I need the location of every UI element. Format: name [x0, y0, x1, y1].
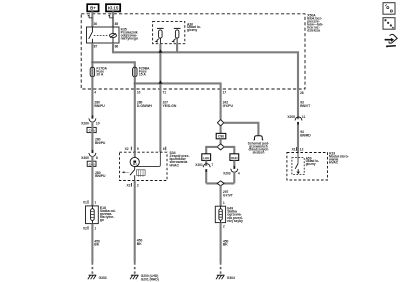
svg-text:30: 30 — [94, 22, 98, 26]
K33 label — [328, 152, 349, 165]
svg-text:11: 11 — [302, 115, 306, 119]
svg-text:15 A: 15 A — [139, 73, 146, 77]
S34 defogger icon — [137, 170, 146, 177]
svg-text:BN/PU: BN/PU — [94, 104, 105, 108]
svg-text:X2: X2 — [83, 226, 87, 230]
svg-text:Kl.15: Kl.15 — [108, 6, 119, 11]
wire X203 to rejoin — [233, 172, 235, 184]
icon arrow (pointer) — [385, 34, 398, 47]
wire branch to pin 17 — [135, 83, 221, 119]
svg-text:71: 71 — [163, 91, 167, 95]
svg-text:X2: X2 — [125, 147, 129, 151]
wire RHD to connector X203 — [233, 160, 235, 165]
HVAC control module K33 dashed box — [287, 153, 328, 181]
fuse F20BA — [133, 66, 150, 76]
LHD box — [202, 154, 211, 161]
wire S34 to ground — [134, 181, 136, 263]
inline harness box C4B — [87, 127, 96, 132]
svg-text:BK: BK — [223, 243, 228, 247]
wire X200 to X300 — [91, 122, 93, 150]
junction arrow at bus — [158, 49, 162, 52]
connector X200 pin 10 — [81, 115, 100, 125]
wire label 280 D-GN/WH — [137, 101, 153, 108]
heater grid E49 — [215, 206, 243, 228]
wire LHD to connector X201 — [205, 160, 207, 166]
svg-text:BK: BK — [137, 242, 142, 246]
ground G200/G201 — [130, 274, 159, 281]
svg-text:GY/PU: GY/PU — [223, 104, 234, 108]
svg-text:giczny: giczny — [306, 162, 316, 166]
A30 label — [187, 22, 201, 32]
svg-text:D-GN/WH: D-GN/WH — [137, 104, 153, 108]
svg-text:2: 2 — [137, 183, 139, 187]
icon box 2 — [383, 18, 395, 30]
HVAC switch assembly S34 dashed box — [120, 152, 168, 180]
svg-text:niej szyby: niej szyby — [227, 219, 243, 223]
svg-text:HVAC: HVAC — [170, 163, 180, 167]
wire to LHD branch — [206, 147, 217, 154]
wire A30 element2 to bus — [176, 38, 178, 44]
K33 logic inner dashed box — [292, 158, 304, 175]
icon box 1 (top-right corner) — [383, 3, 395, 15]
svg-text:C96: C96 — [218, 135, 224, 139]
S34 switch — [122, 167, 135, 181]
svg-text:20 A: 20 A — [96, 73, 103, 77]
node B+ — [87, 4, 98, 11]
wire label 280 BN/PU — [94, 101, 105, 108]
connector X300 pin 8 — [81, 150, 98, 160]
wire F17DA down through border pin 4 — [91, 77, 93, 116]
svg-text:BN/VT: BN/VT — [300, 104, 311, 108]
svg-text:10: 10 — [137, 91, 141, 95]
node Kl.15 — [106, 4, 120, 11]
split diamond node — [217, 144, 224, 150]
wire X205 to K33 — [297, 125, 299, 153]
connector X201 pin 7 — [195, 163, 213, 172]
goes-to text — [248, 142, 270, 155]
junction arrow at branch wire — [158, 80, 162, 83]
A30 element 2 — [172, 28, 181, 42]
ground G303 — [88, 275, 107, 280]
svg-text:12: 12 — [300, 147, 304, 151]
svg-text:X2: X2 — [126, 183, 130, 187]
dashed ground lead — [134, 262, 136, 273]
circuit continuation symbol — [254, 136, 264, 141]
relay coil top stub — [112, 27, 114, 34]
wire B+ to relay pin 30 — [91, 11, 93, 27]
wire rejoin to E49 — [220, 186, 222, 207]
relay switch contact — [89, 27, 93, 43]
svg-text:G303: G303 — [99, 276, 107, 280]
wire Kl.15 to relay coil pin 85 — [112, 11, 114, 27]
K33 internal ground arrow — [297, 169, 299, 171]
fuse block X50A dashed box — [81, 14, 305, 89]
wire label 280 BN/PU — [95, 171, 106, 178]
wire E18 to ground — [91, 224, 93, 263]
wire X300 to E18 — [91, 156, 93, 206]
svg-text:7: 7 — [211, 163, 213, 167]
rejoin wire — [206, 182, 234, 184]
relay K35 box — [87, 27, 120, 43]
wire label 280 BN/PU — [95, 138, 106, 145]
svg-text:4: 4 — [94, 91, 96, 95]
svg-text:X1: X1 — [83, 200, 87, 204]
wire to C96 — [220, 126, 222, 133]
wire to RHD branch — [224, 147, 235, 154]
inline harness box C4B — [87, 161, 96, 166]
terminal hook on Kl.15 wire — [108, 15, 113, 18]
relay coil — [110, 34, 117, 38]
svg-text:86: 86 — [115, 45, 119, 49]
svg-text:siedzeń: siedzeń — [252, 151, 264, 155]
svg-text:giczny: giczny — [187, 28, 197, 32]
svg-text:GY/VT: GY/VT — [223, 193, 234, 197]
svg-text:4: 4 — [238, 171, 240, 175]
wire X201 to rejoin — [205, 172, 207, 183]
svg-text:X203: X203 — [223, 171, 231, 175]
svg-text:6: 6 — [163, 147, 165, 151]
A30 element 1 — [155, 28, 164, 42]
relay K35 label — [121, 28, 138, 41]
svg-text:LHD: LHD — [203, 156, 210, 160]
S34 label — [170, 151, 191, 167]
svg-text:85: 85 — [115, 22, 119, 26]
svg-text:YE/D-GN: YE/D-GN — [163, 104, 177, 108]
logic unit A30 dashed box — [153, 21, 185, 43]
svg-text:X1: X1 — [292, 147, 296, 151]
S34 indicator lamp — [130, 152, 139, 166]
wire branch to F20BA — [92, 62, 134, 77]
wire branch to heated seats schematic — [224, 123, 259, 136]
rejoin diamond node — [217, 181, 224, 186]
svg-text:nia tylnego: nia tylnego — [121, 36, 138, 40]
inline harness box C96 — [216, 133, 226, 138]
wire S34 internal from pin 6 — [135, 152, 161, 166]
svg-text:2: 2 — [223, 224, 225, 228]
svg-text:1: 1 — [223, 201, 225, 205]
wire label 297 GY/VT — [223, 190, 234, 197]
wire relay 86 bus to pin 28 — [112, 37, 114, 43]
RHD box — [230, 154, 239, 161]
wire label 450 BK — [94, 239, 100, 246]
dashed ground lead — [220, 262, 222, 273]
svg-text:go: go — [100, 218, 104, 222]
splice diamond node — [217, 120, 223, 126]
svg-text:8: 8 — [96, 156, 98, 160]
K33 internal switch — [295, 164, 298, 169]
svg-text:X205: X205 — [287, 115, 295, 119]
svg-text:1: 1 — [94, 200, 96, 204]
svg-text:G201 (RHD): G201 (RHD) — [141, 277, 159, 281]
svg-text:HVAC: HVAC — [329, 160, 339, 164]
connector X203 pin 4 — [223, 166, 240, 176]
wire label 93 BN/RD — [300, 130, 311, 137]
wire label 242 GY/PU — [223, 101, 234, 108]
wire A30 element1 down to S34 pin 6 — [159, 38, 161, 44]
svg-text:RHD: RHD — [231, 156, 238, 160]
svg-text:BN/PU: BN/PU — [95, 174, 106, 178]
wire to split diamond — [220, 139, 222, 144]
wire label 93 BN/VT — [300, 101, 311, 108]
svg-text:BN/RD: BN/RD — [300, 133, 311, 137]
wire F20BA down through border pin 10 — [134, 77, 136, 152]
svg-text:1: 1 — [94, 226, 96, 230]
svg-text:BK: BK — [94, 243, 99, 247]
svg-text:10: 10 — [96, 121, 100, 125]
svg-text:dzielcza: dzielcza — [307, 28, 320, 32]
connector X205 pin 11 — [287, 115, 305, 125]
wire label 107 YE/D-GN — [163, 101, 177, 108]
wire label 450 BK — [137, 239, 143, 246]
relay mechanical link (dashed) — [94, 35, 109, 37]
svg-text:B+: B+ — [90, 6, 96, 11]
svg-text:17: 17 — [223, 91, 227, 95]
A50 logic label — [306, 156, 319, 165]
wire label 450 BK — [223, 239, 229, 246]
wire relay 87 down to fuse F17DA — [91, 43, 93, 77]
fuse F17DA — [90, 66, 107, 76]
svg-text:BN/PU: BN/PU — [95, 141, 106, 145]
svg-text:X200: X200 — [81, 121, 89, 125]
svg-text:X201: X201 — [195, 163, 203, 167]
svg-text:X300: X300 — [81, 156, 89, 160]
svg-text:5: 5 — [137, 147, 139, 151]
K33 internal wire — [297, 153, 299, 164]
svg-text:G304: G304 — [227, 276, 235, 280]
X50A label — [307, 13, 323, 32]
junction on F20BA wire to pin 17 feed — [134, 82, 136, 84]
terminal hook on B+ wire — [88, 15, 93, 18]
ground G304 — [216, 275, 235, 280]
junction to F20BA branch — [91, 61, 93, 63]
svg-text:87: 87 — [94, 45, 98, 49]
dashed ground lead — [91, 262, 93, 273]
wire E49 to ground — [220, 223, 222, 263]
heater grid E18 — [83, 200, 116, 230]
svg-text:28: 28 — [300, 91, 304, 95]
